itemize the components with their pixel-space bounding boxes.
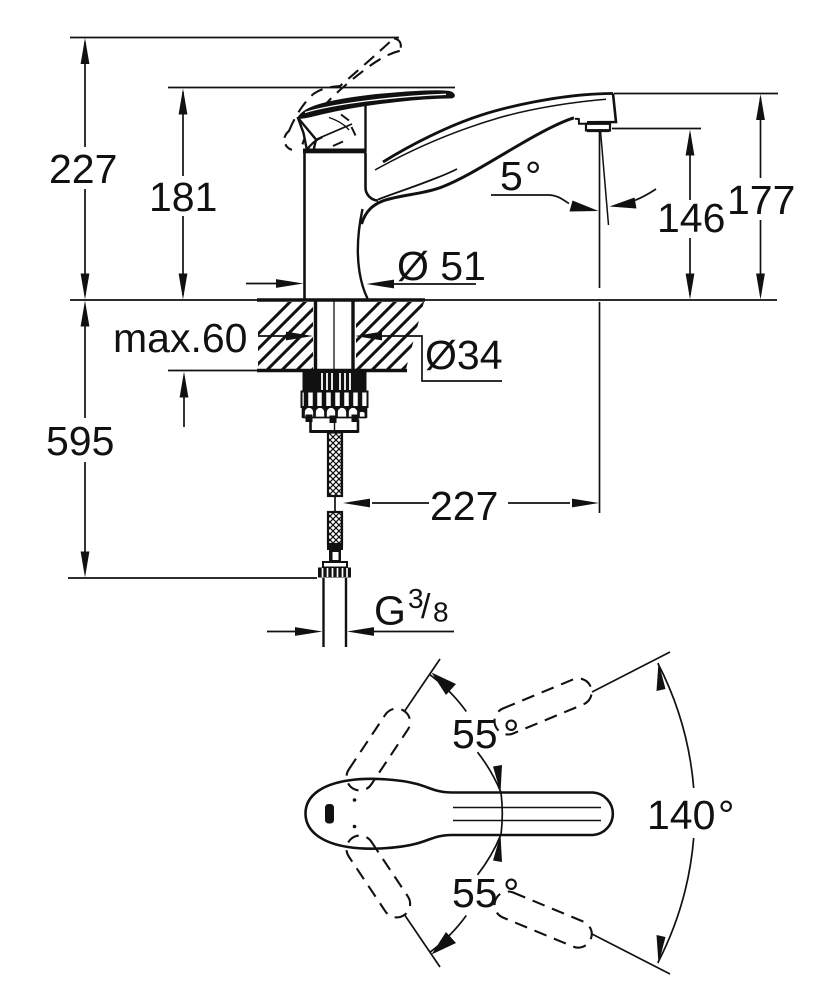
svg-text:°: ° (525, 153, 541, 199)
crown feet (306, 415, 313, 423)
faucet body column right edge + armpit U (365, 153, 378, 201)
svg-text:°: ° (503, 711, 519, 757)
lever plan outline (306, 779, 613, 849)
braided hose segment 2 (322, 490, 350, 572)
joint bar between handle and body (303, 149, 367, 154)
140° arc arrows (657, 662, 666, 691)
svg-text:8: 8 (433, 597, 449, 628)
counter slab top thick edge (257, 298, 425, 302)
radial line upper-left (404, 659, 440, 712)
hose crimp collar (327, 544, 343, 550)
dim 146: vertical line (689, 134, 691, 200)
counter slab bottom thick edge (257, 369, 407, 373)
svg-text:177: 177 (727, 177, 795, 223)
svg-text:146: 146 (657, 195, 725, 241)
svg-text:595: 595 (46, 418, 114, 464)
svg-text:°: ° (718, 792, 734, 838)
dim max.60: lower arrow (183, 377, 185, 427)
extension line (181 ref) (168, 87, 455, 89)
handle lever highlight (305, 94, 446, 112)
pivot dots (353, 798, 357, 802)
shank tube: right edge (351, 301, 354, 370)
extension line top (227 ref) (70, 37, 399, 39)
raised handle (dashed) lower edge (302, 51, 400, 147)
dim 595: bottom reference line (68, 577, 317, 579)
55° arc upper arrows (432, 673, 457, 696)
svg-text:°: ° (503, 870, 519, 916)
spout outer underside curve (362, 118, 575, 224)
hose break centerline (334, 496, 336, 512)
dim 5°: right leader with arrow (629, 189, 656, 203)
water stream 5° tilted line (601, 131, 609, 225)
raised handle dash fragments over face (341, 115, 349, 121)
dim 177: arrows (756, 94, 765, 120)
svg-text:/: / (421, 588, 431, 626)
svg-text:227: 227 (49, 146, 117, 192)
dim 5°: left leader with arrow (491, 195, 569, 204)
140° arc lower (658, 838, 694, 963)
body flank right edge (358, 209, 368, 299)
55° arc lower (478, 835, 502, 875)
handle lever (solid) (298, 91, 454, 118)
counter slab bottom thin extension (168, 370, 260, 372)
dim Ø34: right arrow and leader (355, 332, 382, 341)
dashed lever position lower-left (55°) (341, 830, 415, 922)
raised handle (dashed) tail (284, 131, 297, 151)
55° arc lower arrows (493, 835, 502, 863)
hatching left of shank (216, 292, 390, 376)
mounting nut knurled band (303, 372, 367, 392)
dim Ø51: right leader (394, 283, 476, 285)
dim 227 left: vertical line (84, 42, 86, 147)
55° arc upper (430, 675, 467, 712)
spout top edge (383, 93, 613, 162)
dim 227 bottom: line and arrows (372, 502, 429, 504)
handle dome arc (307, 137, 323, 151)
dim 595: vertical line (84, 306, 86, 418)
supply pipe (322, 578, 324, 647)
counter top surface line (70, 299, 777, 301)
hatching right of shank (306, 292, 480, 376)
lever plan inner lines (453, 807, 601, 809)
spout top inner highlight (375, 99, 606, 170)
dim 177: reference line at spout top (614, 93, 778, 95)
shank tube: centerline (333, 301, 335, 370)
dim 181: vertical line (182, 92, 184, 176)
svg-text:55: 55 (452, 711, 498, 757)
svg-text:max.60: max.60 (113, 315, 247, 361)
dim 146: reference line at outlet (612, 128, 701, 130)
dim 227 left: arrows (81, 38, 90, 64)
raised handle (dashed) tip cap (394, 38, 401, 51)
radial line lower-left (404, 914, 440, 967)
raised handle (dashed) upper edge (289, 40, 393, 132)
svg-text:G: G (374, 588, 406, 634)
svg-text:Ø34: Ø34 (425, 332, 503, 378)
indicator mark (325, 804, 334, 824)
dim Ø51: left leader (246, 283, 276, 285)
svg-text:55: 55 (452, 870, 498, 916)
dashed lever position upper-left (55°) (341, 703, 415, 795)
dim 181: arrows (179, 89, 188, 115)
handle base crease lines (317, 124, 352, 139)
svg-text:181: 181 (149, 174, 217, 220)
dim 177: vertical line (760, 98, 762, 178)
dim 227 bottom: centerline extension (599, 302, 601, 513)
dim 595: arrows (81, 301, 90, 327)
140° arc upper (658, 663, 694, 788)
dim G3/8: left arrow (267, 631, 295, 633)
svg-text:Ø 51: Ø 51 (397, 243, 486, 289)
mounting nut castellated band (302, 392, 368, 408)
spout inner underside curve (378, 169, 457, 200)
spout end block (587, 94, 616, 123)
handle base bevel crease (299, 119, 317, 151)
mounting nut crown scallops (303, 407, 367, 417)
dashed lever position upper-right (140° end) (490, 674, 595, 738)
svg-text:227: 227 (430, 483, 498, 529)
radial line upper-right (592, 652, 670, 692)
dim G3/8: right arrow (374, 631, 454, 633)
hose adapter block (311, 420, 359, 432)
spout underside step (575, 119, 586, 124)
faucet body column left edge (303, 152, 306, 299)
svg-text:140: 140 (647, 792, 715, 838)
water stream vertical line (599, 131, 601, 288)
braided hose segment 1 (322, 420, 350, 532)
dashed lever position lower-right (140° end) (490, 887, 595, 951)
radial line lower-right (592, 934, 670, 974)
svg-text:5: 5 (500, 153, 523, 199)
hose end nut (323, 562, 347, 568)
dim 146: arrows (686, 130, 695, 156)
dim Ø34: left arrow (258, 335, 286, 337)
55° arc through bar (501, 793, 502, 835)
handle base (298, 104, 366, 151)
aerator (586, 124, 610, 131)
shank tube below counter: left edge (314, 301, 317, 370)
